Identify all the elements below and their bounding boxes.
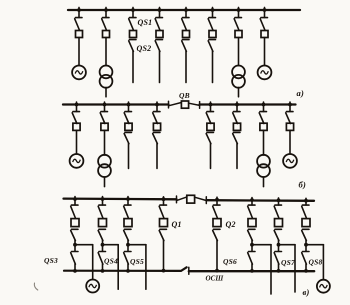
- node: branch junction of feeder W14: [250, 243, 254, 247]
- node: main-bus tap of feeder W12 (diagram v): [101, 197, 105, 201]
- node: main-bus tap of feeder W15 (diagram v): [277, 198, 281, 202]
- node: bus tap of feeder W4 (diagram a): [158, 8, 162, 12]
- wire: coupler Q2 down to bypass bus: [216, 240, 218, 270]
- disconnector (bus side) of feeder W6: [208, 18, 215, 30]
- disconnector (line side) of feeder W16: [302, 229, 309, 240]
- disconnector QS4 to bypass bus: [98, 252, 105, 265]
- node: bus tap of feeder G4 (diagram b): [288, 103, 292, 107]
- wire: below transformer T3: [104, 177, 106, 187]
- disconnector (bus side) of feeder W7: [124, 112, 131, 124]
- sectional breaker QB (square): [181, 101, 188, 108]
- wire: stub from main bus, feeder W16: [305, 198, 307, 205]
- sectional breaker (square) on main bus: [187, 195, 195, 203]
- disconnector QS5 to bypass bus: [124, 252, 131, 265]
- breaker (square) of feeder T1: [103, 31, 110, 38]
- node: bus tap of feeder T3 (diagram b): [103, 103, 107, 107]
- wire: outgoing line of feeder W8: [156, 144, 158, 169]
- svg-text:QS4: QS4: [104, 256, 118, 265]
- wire: stub from main bus, coupler Q1: [163, 197, 165, 205]
- node: main-bus tap of feeder W13 (diagram v): [126, 197, 130, 201]
- breaker (square) of feeder W9: [207, 123, 214, 130]
- wire: branch of feeder W15 (vertical): [294, 245, 296, 292]
- wire: breaker to generator G1: [78, 38, 80, 66]
- node: bus tap of feeder T1 (diagram a): [104, 8, 108, 12]
- node: main-bus tap of feeder W14 (diagram v): [250, 198, 254, 202]
- wire: stub from main bus, coupler Q2: [216, 197, 218, 205]
- breaker (square) of feeder W13: [124, 219, 132, 227]
- node: bus tap of feeder W5 (diagram a): [184, 8, 188, 12]
- wire: breaker to transformer T4: [263, 130, 265, 155]
- disconnector right of sectional breaker: contact tick: [205, 197, 207, 204]
- node: bypass bus tap of QS3: [73, 269, 77, 273]
- busbar: diagram v left main bus section: [64, 197, 177, 200]
- disconnector blade left of QB: [169, 103, 181, 106]
- disconnector (line side) of feeder W3 QS2: [129, 40, 136, 52]
- wire: branch of feeder W11 (horizontal): [75, 244, 93, 246]
- disconnector (bus side) of feeder T2: [234, 18, 241, 30]
- transformer T4: [257, 155, 270, 177]
- breaker (square) of feeder W12: [99, 219, 107, 227]
- wire: QS5 to bypass bus: [127, 264, 129, 271]
- disconnector left of sectional breaker: contact tick: [176, 196, 178, 203]
- generator G6: [317, 280, 330, 293]
- disconnector (bus side) of feeder G1: [75, 18, 82, 30]
- transformer T3: [98, 155, 111, 177]
- wire: stub from bus to disconnector, feeder W5: [185, 7, 187, 17]
- disconnector blade left of sectional breaker: [177, 197, 187, 201]
- node: bus tap of feeder W3 (diagram a): [131, 8, 135, 12]
- node: main-bus tap of coupler Q1: [162, 197, 166, 201]
- disconnector (bus side) of feeder T1: [102, 18, 109, 30]
- disconnector QS6 to bypass bus: [248, 252, 255, 265]
- svg-text:QS1: QS1: [138, 18, 153, 27]
- disconnector (line side) of feeder W4: [155, 40, 162, 52]
- wire: stub from bus to disconnector, feeder T1: [105, 7, 107, 17]
- wire: stub from bus to disconnector, feeder W10: [236, 102, 238, 111]
- disconnector (bus side) of feeder G4: [286, 112, 293, 124]
- svg-text:QS8: QS8: [309, 257, 323, 266]
- disconnector (line side) of feeder W11: [71, 229, 78, 240]
- breaker (square) of feeder W15: [275, 219, 283, 227]
- disconnector (bus side) of feeder W13: [124, 205, 131, 218]
- node: bus tap of feeder W7 (diagram b): [127, 103, 131, 107]
- node: main-bus tap of coupler Q2: [215, 198, 219, 202]
- stray pen mark (scan artifact): [34, 283, 37, 290]
- node: bypass bus tap of QS8: [304, 269, 308, 273]
- disconnector (bus side) of feeder T3: [100, 112, 107, 124]
- breaker (square) of feeder W6: [209, 31, 216, 38]
- svg-text:ОСШ: ОСШ: [206, 275, 225, 283]
- wire: below transformer T1: [105, 88, 107, 97]
- node: bus tap of feeder T2 (diagram a): [237, 8, 241, 12]
- disconnector (bus side) of feeder W14: [248, 205, 255, 218]
- node: bypass bus tap of QS5: [126, 269, 130, 273]
- transformer T1: [100, 66, 113, 88]
- wire: stub from main bus, feeder W12: [102, 197, 104, 205]
- disconnector (right of QB): contact tick: [199, 102, 201, 109]
- wire: breaker to transformer T3: [104, 130, 106, 155]
- disconnector (bus side) of feeder G3: [72, 112, 79, 124]
- disconnector (bus side) of feeder W8: [153, 112, 160, 124]
- wire: stub from bus to disconnector, feeder W7: [128, 102, 130, 111]
- disconnector (bus side) of feeder W16: [302, 205, 309, 218]
- busbar: bypass bus OSSh left section: [64, 267, 187, 271]
- wire: outgoing line of feeder W3: [132, 51, 134, 82]
- wire: QS6 to bypass bus: [251, 264, 253, 271]
- wire: outgoing line of feeder W6: [212, 51, 214, 82]
- disconnector (line side) of feeder W6: [208, 40, 215, 52]
- busbar: bypass bus OSSh right section: [189, 270, 314, 272]
- wire: outgoing line of feeder W7: [128, 144, 130, 169]
- wire: stub from bus to disconnector, feeder G3: [76, 102, 78, 111]
- wire: coupler Q1 down to bypass bus: [163, 240, 165, 270]
- svg-text:б): б): [299, 180, 306, 190]
- generator G2: [258, 66, 272, 80]
- wire: feeder W15 down to branch node: [278, 240, 280, 251]
- generator G4: [283, 154, 297, 168]
- wire: stub from main bus, feeder W15: [278, 198, 280, 205]
- svg-text:QB: QB: [179, 91, 190, 100]
- node: bus tap of feeder W6 (diagram a): [211, 8, 215, 12]
- wire: stub from bus to disconnector, feeder T3: [104, 102, 106, 111]
- wire: stub from main bus, feeder W13: [127, 197, 129, 205]
- busbar: diagram b right bus section: [200, 103, 296, 105]
- wire: breaker to generator G3: [76, 130, 78, 154]
- svg-text:в): в): [303, 287, 310, 297]
- node: bus tap of feeder W10 (diagram b): [235, 103, 239, 107]
- wire: below transformer T2: [238, 88, 240, 97]
- disconnector QS3 to bypass bus: [71, 252, 78, 265]
- wire: stub from bus to disconnector, feeder G1: [78, 7, 80, 17]
- wire: outgoing line of feeder W9: [210, 144, 212, 169]
- breaker Q1 (square): [160, 219, 168, 227]
- disconnector (line side) of feeder W12: [98, 229, 105, 240]
- wire: stub from bus to disconnector, feeder W3: [132, 7, 134, 17]
- wire: stub from bus to disconnector, feeder T4: [263, 102, 265, 111]
- wire: breaker to transformer T2: [238, 38, 240, 66]
- disconnector (bus side) of feeder W9: [206, 112, 213, 124]
- wire: branch of feeder W15 (horizontal): [279, 244, 296, 246]
- wire: QS8 to bypass bus: [305, 264, 307, 271]
- node: branch junction of feeder W15: [277, 243, 281, 247]
- wire: stub from bus to disconnector, feeder W6: [212, 7, 214, 17]
- disconnector (bus side) of feeder W15: [274, 205, 281, 218]
- node: bus tap of feeder G3 (diagram b): [75, 103, 79, 107]
- disconnector (bus side) of feeder T4: [259, 112, 266, 124]
- wire: feeder W12 down to branch node: [102, 240, 104, 251]
- wire: branch of feeder W16 (vertical): [322, 245, 324, 280]
- svg-text:QS6: QS6: [223, 257, 237, 266]
- busbar: diagram b left bus section: [63, 103, 169, 105]
- generator G1: [72, 66, 86, 80]
- busbar: diagram v right main bus section: [206, 199, 314, 202]
- wire: feeder W14 down to branch node: [251, 240, 253, 251]
- generator G3: [70, 154, 84, 168]
- node: bus tap of feeder G1 (diagram a): [77, 8, 81, 12]
- wire: stub from bus to disconnector, feeder G2: [264, 7, 266, 17]
- breaker (square) of feeder W8: [153, 123, 160, 130]
- wire: feeder W13 down to branch node: [127, 240, 129, 251]
- wire: branch of feeder W12 (vertical): [117, 245, 119, 290]
- disconnector (bus side) of feeder W11: [71, 205, 78, 218]
- svg-text:Q2: Q2: [226, 220, 236, 229]
- breaker (square) of feeder W5: [183, 31, 190, 38]
- wire: outgoing line of feeder W4: [159, 51, 161, 82]
- disconnector (bus side) of feeder G2: [260, 18, 267, 30]
- wire: breaker to generator G2: [264, 38, 266, 66]
- node: branch junction of feeder W16: [304, 243, 308, 247]
- node: branch junction of feeder W12: [101, 243, 105, 247]
- wire: branch of feeder W13 (vertical): [145, 245, 147, 290]
- svg-text:Q1: Q1: [172, 220, 182, 229]
- node: branch junction of feeder W13: [126, 243, 130, 247]
- wire: branch of feeder W16 (horizontal): [306, 244, 323, 246]
- generator G5: [86, 280, 99, 293]
- disconnector (line side) of feeder W10: [233, 132, 240, 143]
- svg-text:QS3: QS3: [44, 256, 58, 265]
- node: bus tap of feeder W9 (diagram b): [209, 103, 213, 107]
- wire: breaker to transformer T1: [105, 38, 107, 66]
- breaker (square) of feeder W14: [248, 219, 256, 227]
- wire: branch of feeder W12 (horizontal): [103, 244, 119, 246]
- node: branch junction of feeder W11: [73, 243, 77, 247]
- breaker (square) of feeder W16: [302, 219, 310, 227]
- disconnector (line side) of feeder W5: [182, 40, 189, 52]
- open link tick on bypass bus: [188, 267, 190, 274]
- node: bus tap of feeder T4 (diagram b): [262, 103, 266, 107]
- node: bypass bus tap of coupler Q1: [162, 269, 166, 273]
- wire: feeder W16 down to branch node: [305, 240, 307, 251]
- svg-text:QS2: QS2: [137, 44, 152, 53]
- node: bypass bus tap of coupler Q2: [215, 269, 219, 273]
- wire: branch of feeder W11 (vertical): [92, 245, 94, 280]
- wire: branch of feeder W13 (horizontal): [128, 244, 146, 246]
- disconnector (bus side) of feeder W5: [182, 18, 189, 30]
- disconnector (bus side) of feeder W4: [155, 18, 162, 30]
- disconnector (lower) of coupler Q1: [159, 229, 166, 240]
- breaker (square) of feeder G4: [286, 123, 293, 130]
- breaker (square) of feeder T2: [235, 31, 242, 38]
- disconnector (bus side) of feeder W12: [98, 205, 105, 218]
- disconnector (line side) of feeder W13: [124, 229, 131, 240]
- disconnector (bus side) of feeder W3: [129, 18, 136, 30]
- wire: outgoing line of feeder W10: [236, 144, 238, 169]
- disconnector QS7 to bypass bus: [274, 252, 281, 265]
- breaker Q2 (square): [213, 219, 221, 227]
- breaker (square) of feeder W10: [233, 123, 240, 130]
- node: bus tap of feeder W8 (diagram b): [155, 103, 159, 107]
- wire: stub from main bus, feeder W11: [74, 197, 76, 205]
- wire: branch of feeder W14 (horizontal): [252, 244, 271, 246]
- wire: QS4 to bypass bus: [102, 264, 104, 271]
- wire: stub from bus to disconnector, feeder W4: [159, 7, 161, 17]
- wire: branch of feeder W14 (vertical): [270, 245, 272, 294]
- node: bus tap of feeder G2 (diagram a): [263, 8, 267, 12]
- transformer T2: [232, 66, 245, 88]
- wire: stub from bus to disconnector, feeder G4: [289, 102, 291, 111]
- node: bypass bus tap of QS6: [250, 269, 254, 273]
- busbar: diagram a main bus: [68, 9, 300, 11]
- node: bypass bus tap of QS7: [277, 269, 281, 273]
- wire: stub from bus to disconnector, feeder T2: [238, 7, 240, 17]
- svg-text:QS7: QS7: [281, 258, 295, 267]
- wire: below transformer T4: [263, 177, 265, 187]
- disconnector (lower) of coupler Q2: [213, 229, 220, 240]
- breaker (square) of feeder T4: [260, 123, 267, 130]
- wire: stub from bus to disconnector, feeder W9: [210, 102, 212, 111]
- disconnector (line side) of feeder W15: [274, 229, 281, 240]
- disconnector (bus side) of coupler Q2: [213, 205, 220, 218]
- breaker (square) of feeder T3: [101, 123, 108, 130]
- disconnector (line side) of feeder W7: [124, 132, 131, 143]
- breaker (square) of feeder G1: [76, 31, 83, 38]
- svg-text:а): а): [297, 88, 304, 98]
- node: main-bus tap of feeder W16 (diagram v): [304, 199, 308, 203]
- disconnector (bus side) of coupler Q1: [159, 205, 166, 218]
- disconnector blade right of sectional breaker: [195, 197, 207, 200]
- wire: stub from bus to disconnector, feeder W8: [156, 102, 158, 111]
- breaker (square) of feeder W4: [156, 31, 163, 38]
- wire: breaker to generator G4: [289, 130, 291, 154]
- wire: QS3 to bypass bus: [74, 264, 76, 271]
- disconnector (line side) of feeder W9: [206, 132, 213, 143]
- disconnector (bus side) of feeder W10: [233, 112, 240, 124]
- wire: feeder W11 down to branch node: [74, 240, 76, 251]
- breaker (square) of feeder W7: [125, 123, 132, 130]
- disconnector (line side) of feeder W8: [153, 132, 160, 143]
- node: main-bus tap of feeder W11 (diagram v): [73, 197, 77, 201]
- wire: QS7 to bypass bus: [278, 264, 280, 271]
- disconnector (line side) of feeder W14: [248, 229, 255, 240]
- disconnector blade right of QB: [189, 103, 200, 105]
- svg-text:QS5: QS5: [130, 257, 144, 266]
- wire: stub from main bus, feeder W14: [251, 198, 253, 205]
- disconnector QS8 to bypass bus: [302, 252, 309, 265]
- breaker (square) of feeder G2: [261, 31, 268, 38]
- breaker (square) of feeder G3: [73, 123, 80, 130]
- disconnector (left of sectional breaker QB): contact tick: [168, 101, 170, 108]
- wire: outgoing line of feeder W5: [185, 51, 187, 82]
- breaker (square) of feeder W3: [130, 31, 137, 38]
- node: bypass bus tap of QS4: [101, 269, 105, 273]
- breaker (square) of feeder W11: [71, 219, 79, 227]
